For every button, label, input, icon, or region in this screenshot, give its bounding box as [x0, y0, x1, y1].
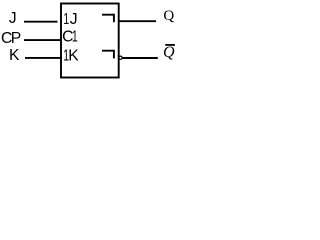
wire K input — [25, 57, 61, 59]
svg-text:K: K — [9, 47, 20, 64]
svg-text:J: J — [9, 10, 17, 27]
wire Q output — [119, 20, 157, 22]
inversion bubble on Qbar — [119, 56, 122, 59]
svg-text:K: K — [68, 47, 79, 64]
wire J input — [24, 21, 58, 23]
postponed-output indicator (Q) — [102, 15, 114, 23]
svg-text:J: J — [70, 11, 78, 28]
wire CP input — [24, 39, 61, 41]
svg-text:Q: Q — [163, 8, 174, 24]
svg-text:P: P — [11, 30, 21, 47]
svg-text:1: 1 — [72, 29, 78, 46]
wire Qbar output — [123, 57, 158, 59]
overline of Qbar — [165, 44, 175, 46]
flip-flop body U1 — [61, 4, 119, 78]
JK master-slave flip-flop U1 (IEC symbol) — [0, 0, 180, 79]
svg-text:Q: Q — [163, 44, 175, 61]
svg-text:1: 1 — [63, 11, 69, 28]
postponed-output indicator (Qbar) — [102, 51, 114, 59]
